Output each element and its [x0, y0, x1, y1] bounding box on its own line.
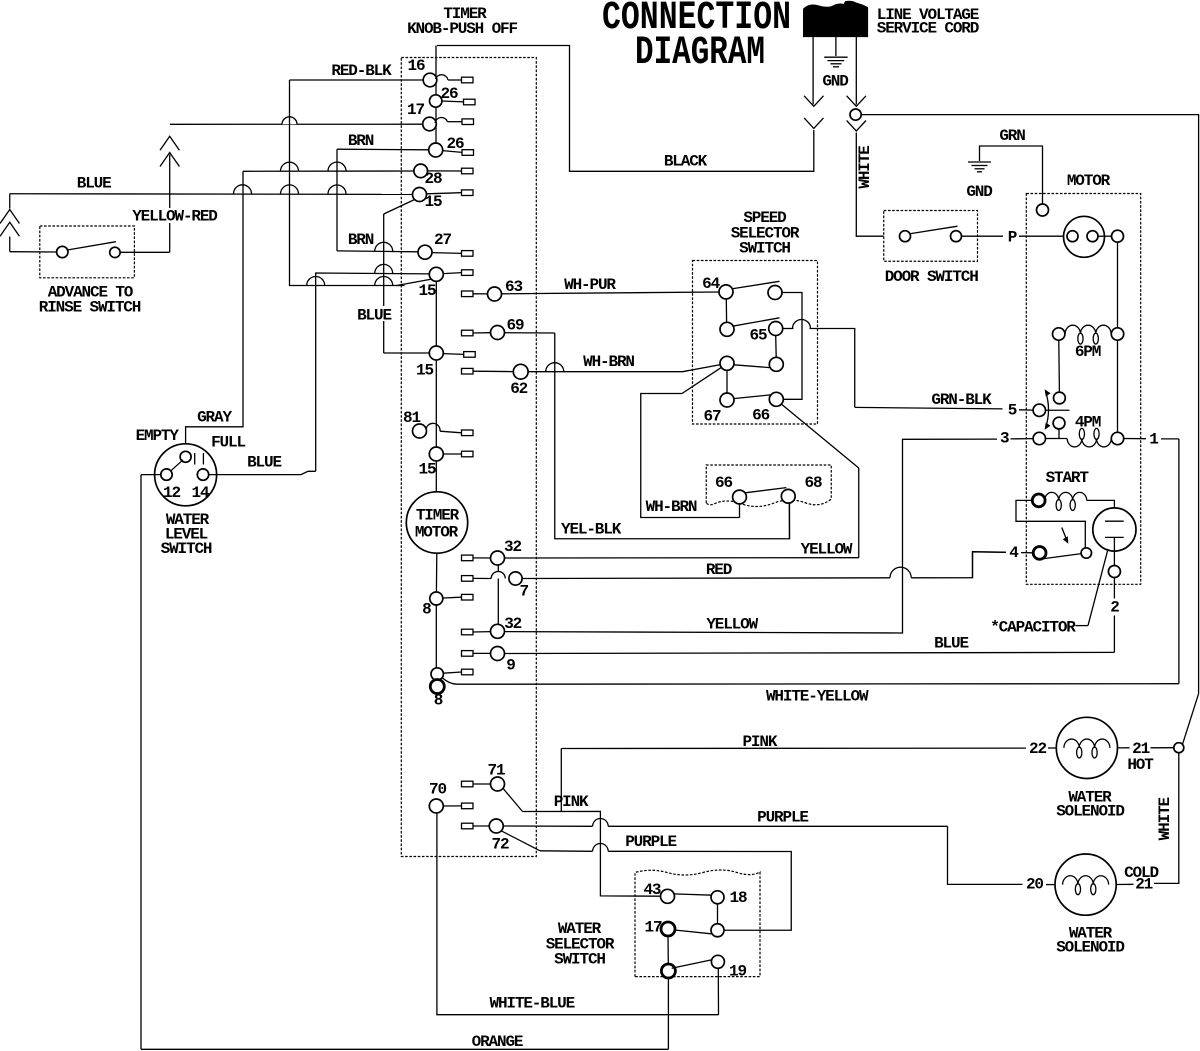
svg-text:GRN-BLK: GRN-BLK: [931, 391, 992, 409]
contact 70: [429, 799, 443, 813]
svg-text:66: 66: [752, 407, 769, 425]
svg-text:9: 9: [506, 657, 515, 675]
svg-text:YELLOW-RED: YELLOW-RED: [132, 208, 217, 226]
svg-text:SWITCH: SWITCH: [554, 951, 605, 969]
svg-text:MOTOR: MOTOR: [415, 524, 459, 542]
wire wh-brn2 from mid-left: [641, 367, 740, 517]
contact 65b: [769, 322, 783, 336]
contact 19: [711, 955, 724, 968]
contact 9: [491, 647, 505, 661]
contact speed switch lower: [1053, 417, 1065, 429]
connector chevron white: [847, 121, 866, 132]
wire red-blk to contact 16: [290, 79, 424, 81]
svg-text:43: 43: [643, 881, 660, 899]
svg-text:SWITCH: SWITCH: [739, 239, 790, 257]
motor pin circle: [1112, 230, 1124, 242]
hot solenoid circle: [1056, 717, 1117, 778]
svg-text:RED: RED: [706, 561, 732, 579]
wire orange vertical: [667, 978, 669, 1049]
wire 21 to junction: [1151, 747, 1174, 749]
wire 66a diagonal: [781, 404, 858, 468]
svg-text:28: 28: [425, 170, 442, 188]
water selector box: [635, 870, 760, 977]
motor rotor circle: [1064, 216, 1105, 257]
svg-text:WHITE: WHITE: [1156, 798, 1174, 841]
svg-text:YELLOW: YELLOW: [801, 541, 853, 559]
svg-text:8: 8: [422, 601, 431, 619]
svg-text:KNOB-PUSH OFF: KNOB-PUSH OFF: [407, 20, 517, 38]
wire 22 to hot coil: [1048, 747, 1056, 749]
wire start loop: [1016, 500, 1085, 548]
wire 27 to terminal: [432, 252, 462, 255]
contact 6PM left: [1053, 328, 1065, 340]
contact 19c: [661, 964, 675, 978]
wire left long vertical: [140, 475, 142, 1050]
blade rinse: [67, 242, 116, 250]
svg-text:RINSE SWITCH: RINSE SWITCH: [39, 299, 141, 317]
svg-text:START: START: [1046, 469, 1090, 487]
svg-text:68: 68: [805, 474, 822, 492]
svg-text:17: 17: [407, 101, 424, 119]
wire purple to 20: [948, 826, 1023, 884]
svg-text:EMPTY: EMPTY: [136, 427, 180, 445]
arrowhead black lead: [804, 96, 823, 107]
capacitor circle: [1093, 508, 1136, 551]
label YELLOW-RED: [131, 208, 219, 223]
contact rinse right: [110, 247, 120, 257]
wire 8a to terminal: [443, 596, 462, 599]
terminal 15c: [464, 352, 476, 358]
wire yellow 32a run: [505, 557, 859, 559]
blade 67-66: [734, 395, 771, 399]
terminal 17: [462, 119, 474, 125]
arrowhead white lead: [847, 96, 866, 107]
wire rinse to yellow-red: [120, 251, 170, 253]
svg-text:5: 5: [1008, 402, 1017, 420]
wire white diagonal to hot junction: [1183, 694, 1199, 745]
terminal 71: [462, 781, 474, 787]
label YELLOW (lower): [703, 616, 761, 629]
wire 5 fixed contact: [1046, 409, 1070, 411]
wire grn-blk: [855, 407, 1003, 409]
svg-text:P: P: [1008, 228, 1017, 246]
svg-text:27: 27: [434, 231, 451, 249]
contact mid-right: [769, 357, 783, 371]
contact 16: [423, 73, 437, 87]
wire terminal to 72: [473, 825, 489, 827]
terminal 9: [462, 651, 474, 657]
wire terminal to 32b: [473, 631, 491, 633]
svg-text:PURPLE: PURPLE: [757, 809, 808, 827]
contact 67: [720, 393, 734, 407]
svg-text:*CAPACITOR: *CAPACITOR: [990, 619, 1076, 637]
wire pink to solenoid: [561, 747, 1026, 749]
wire 15b to terminal: [443, 273, 461, 274]
aux switch 66/68 box: [706, 465, 831, 507]
wire blue down to switch: [9, 237, 11, 252]
connector chevron black: [804, 118, 823, 128]
wire wh-brn 62 run: [528, 371, 682, 373]
wire white top run to right edge: [861, 115, 1198, 694]
contact 27: [418, 245, 432, 259]
svg-text:BLUE: BLUE: [77, 175, 111, 193]
svg-text:WH-BRN: WH-BRN: [583, 353, 634, 371]
label 11 ticks: [194, 453, 196, 465]
wire 1 stub left: [1124, 438, 1146, 440]
strap 17w-blc: [667, 936, 669, 964]
wire pink tee up: [560, 749, 562, 812]
wire white-yellow run: [442, 678, 457, 685]
terminal 62: [462, 368, 474, 374]
wire 15c feed: [384, 352, 430, 354]
motor ground terminal: [1037, 204, 1049, 216]
svg-text:WH-PUR: WH-PUR: [564, 276, 616, 294]
contact 2: [1108, 566, 1120, 578]
wire 2 down: [1113, 578, 1115, 599]
motor rotor contact left: [1067, 231, 1078, 242]
wire blue vertical to 15b: [316, 273, 430, 471]
contact 5: [1033, 404, 1045, 416]
terminal 16: [462, 77, 474, 83]
svg-text:66: 66: [715, 474, 732, 492]
svg-text:WHITE-YELLOW: WHITE-YELLOW: [766, 688, 869, 706]
wire wh-brn diagonal to selector: [683, 365, 721, 372]
wire capacitor lower stem: [1113, 537, 1115, 565]
svg-text:ORANGE: ORANGE: [472, 1033, 523, 1051]
terminal 15b: [462, 270, 474, 276]
connector chevrons yellow-red: [160, 136, 179, 150]
contact 15b: [429, 267, 443, 281]
wire red run: [522, 577, 890, 580]
wire timer motor to 8a: [435, 553, 437, 592]
wire white-blue from 70: [437, 813, 719, 1015]
wire hop contact 16 to terminal: [436, 75, 449, 80]
svg-text:GRAY: GRAY: [197, 409, 232, 427]
contact 18: [711, 891, 724, 904]
wire 15a to terminal: [427, 193, 462, 194]
wire 5 stub: [1019, 409, 1033, 411]
wire 1 vertical: [1178, 439, 1180, 684]
wire blue left end: [9, 194, 11, 209]
contact 8a: [430, 592, 443, 605]
contact speed switch upper: [1054, 392, 1066, 404]
blade 65: [733, 318, 780, 326]
wire hop contact 81 to terminal: [426, 423, 440, 431]
svg-text:SOLENOID: SOLENOID: [1056, 939, 1124, 957]
svg-text:20: 20: [1026, 876, 1043, 894]
svg-text:69: 69: [507, 317, 524, 335]
svg-text:BLUE: BLUE: [357, 307, 391, 325]
contact 72: [489, 819, 503, 833]
capacitor plate bottom: [1105, 536, 1124, 538]
blade 64: [732, 281, 780, 289]
coil START: [1045, 492, 1087, 500]
contact 81: [413, 424, 427, 438]
blade mid: [734, 365, 770, 368]
svg-text:BLUE: BLUE: [247, 454, 281, 472]
wire terminal to 7: [473, 577, 491, 579]
svg-text:62: 62: [510, 380, 527, 398]
wire hot coil to 21: [1118, 747, 1130, 749]
ground lead from plug: [835, 37, 837, 56]
wire gray run: [186, 171, 243, 451]
strap lower to 3-line: [1058, 429, 1060, 438]
contact 8b: [431, 668, 443, 680]
svg-text:67: 67: [704, 408, 721, 426]
wire 21 cold stub: [1116, 883, 1133, 885]
wire orange run: [141, 1048, 668, 1050]
wire 8b to terminal: [443, 672, 461, 673]
svg-text:14: 14: [192, 484, 210, 502]
door switch box: [884, 211, 978, 262]
terminal 27: [462, 251, 474, 257]
wire 68 down: [788, 503, 790, 539]
contact 7: [509, 572, 522, 585]
wire timer common bus (vertical): [435, 46, 437, 144]
wire terminal to 32a: [473, 557, 491, 559]
strap 6PM to switch: [1058, 340, 1061, 392]
wire 26a to terminal: [442, 100, 464, 103]
wire to advance switch: [10, 251, 57, 253]
wire water level right lead (blue): [209, 471, 316, 474]
svg-text:GND: GND: [966, 183, 992, 201]
svg-text:PINK: PINK: [742, 733, 777, 751]
wire 26b to terminal: [443, 151, 462, 153]
svg-text:FULL: FULL: [211, 434, 245, 452]
svg-text:DIAGRAM: DIAGRAM: [635, 31, 765, 76]
svg-text:BRN: BRN: [348, 231, 374, 249]
wire purple lower run: [540, 850, 593, 853]
svg-text:WHITE-BLUE: WHITE-BLUE: [490, 995, 575, 1013]
strap 6PM right to 4PM right: [1117, 340, 1119, 432]
contact 3: [1033, 432, 1045, 444]
wire 71 diagonal: [503, 789, 522, 812]
wire 15 bus b-c: [435, 281, 437, 346]
node 8 bold ring: [430, 680, 444, 694]
svg-text:65: 65: [750, 327, 767, 345]
terminal 14 (water level right): [197, 469, 208, 480]
svg-text:BLACK: BLACK: [664, 153, 708, 171]
wire cold coil to 20: [1046, 884, 1055, 886]
svg-text:12: 12: [163, 484, 180, 502]
terminal 11 (water level top): [180, 451, 191, 462]
wire blue run (15a): [10, 193, 413, 196]
terminal 12 (water level left): [161, 469, 172, 480]
svg-text:1: 1: [1149, 431, 1158, 449]
svg-text:PINK: PINK: [554, 793, 589, 811]
wire terminal to 9: [473, 652, 491, 654]
svg-text:2: 2: [1110, 599, 1119, 617]
svg-text:15: 15: [416, 362, 433, 380]
strap 65b-mid: [775, 336, 778, 358]
wire yel-blk 69 to 68: [555, 333, 790, 539]
svg-text:HOT: HOT: [1127, 756, 1154, 774]
contact 68: [781, 489, 795, 503]
svg-text:YELLOW: YELLOW: [706, 616, 758, 634]
svg-text:DOOR SWITCH: DOOR SWITCH: [885, 268, 979, 286]
capacitor plate top: [1105, 520, 1124, 522]
contact 4: [1033, 547, 1046, 560]
coil cold solenoid: [1063, 876, 1109, 885]
wire yellow-red vertical: [169, 155, 171, 253]
node hot junction: [1174, 743, 1184, 753]
contact 66a: [769, 392, 783, 406]
wire 70 to terminal: [443, 805, 461, 807]
svg-text:COLD: COLD: [1124, 864, 1158, 882]
wire red-blk branch to 15b: [290, 80, 405, 286]
terminal 69: [462, 330, 474, 336]
wire 72 diagonal: [501, 831, 540, 851]
coil 4PM: [1067, 439, 1111, 447]
terminal 70: [462, 803, 474, 809]
wire 4 stub: [1021, 552, 1033, 554]
wire P to motor: [1019, 235, 1067, 237]
terminal 28: [462, 168, 474, 174]
svg-text:6PM: 6PM: [1075, 343, 1101, 361]
contact start left: [1032, 494, 1045, 507]
wire 3 stub: [1011, 438, 1034, 440]
svg-text:GND: GND: [822, 73, 848, 91]
contact 71: [491, 777, 505, 791]
svg-text:WH-BRN: WH-BRN: [646, 498, 697, 516]
wire gray run (28): [243, 170, 414, 172]
wire grn: [980, 146, 1043, 204]
svg-text:32: 32: [504, 615, 521, 633]
motor rotor contact right: [1087, 231, 1098, 242]
wire 66a vertical (yellow): [858, 468, 860, 558]
centrifugal arc: [1046, 391, 1049, 428]
svg-text:71: 71: [488, 762, 505, 780]
blade 4-start: [1037, 554, 1082, 560]
wire 15a diagonal to bus: [384, 200, 415, 214]
svg-text:22: 22: [1029, 740, 1046, 758]
contact 17w: [661, 922, 675, 936]
contact 66b: [733, 490, 747, 504]
svg-text:WHITE: WHITE: [856, 146, 874, 189]
svg-text:GRN: GRN: [999, 127, 1025, 145]
terminal 8a: [462, 594, 474, 600]
svg-text:SWITCH: SWITCH: [161, 540, 212, 558]
wire 66b down: [739, 504, 741, 518]
contact 64: [719, 285, 733, 299]
label BLUE (timer left): [356, 306, 393, 321]
wire blue run: [505, 652, 1115, 653]
svg-text:64: 64: [702, 275, 720, 293]
terminal 81: [462, 430, 474, 436]
svg-text:81: 81: [403, 409, 420, 427]
terminal 63: [462, 291, 474, 297]
wire purple upper run: [503, 825, 592, 827]
svg-text:BRN: BRN: [348, 132, 374, 150]
wire 3 to coil: [1046, 438, 1068, 440]
wire terminal to 63: [473, 293, 488, 295]
svg-text:72: 72: [492, 836, 509, 854]
contact 15c: [429, 346, 443, 360]
contact door right: [951, 231, 962, 242]
wire 15d to terminal: [443, 453, 461, 455]
wire 15c to terminal: [443, 353, 463, 356]
wire yellow 32b run: [505, 439, 998, 633]
wire plug left lead (black): [812, 37, 814, 105]
contact 15d: [429, 447, 443, 461]
advance to rinse box: [40, 226, 135, 278]
coil 6PM: [1065, 325, 1111, 334]
wire diagonal to contact 15b: [396, 279, 433, 286]
wire 15 bus c-d: [435, 360, 437, 447]
wire 15 bus d-motor: [435, 461, 437, 492]
contact 17: [423, 117, 437, 131]
wire 17 from disconnect: [170, 123, 423, 125]
blade water level: [170, 460, 183, 472]
blade 19: [672, 959, 714, 968]
svg-text:19: 19: [729, 963, 746, 981]
speed selector box: [693, 261, 818, 425]
svg-text:TIMER: TIMER: [416, 507, 460, 525]
terminal 15a: [462, 190, 474, 196]
wire water level left lead: [141, 474, 161, 476]
terminal 8b: [462, 669, 474, 675]
wire start to capacitor: [1087, 500, 1115, 521]
contact 69: [491, 326, 505, 340]
svg-text:18: 18: [730, 889, 747, 907]
wire terminal to 62: [473, 370, 513, 372]
terminal 26a: [464, 99, 476, 105]
start arrow: [1062, 528, 1068, 542]
svg-text:7: 7: [519, 583, 528, 601]
terminal 26b: [462, 150, 474, 156]
contact 15a: [413, 188, 427, 202]
svg-text:RED-BLK: RED-BLK: [331, 62, 392, 80]
wire 65 output: [783, 328, 794, 330]
blade 17w-18b: [675, 930, 712, 934]
timer motor circle: [406, 492, 467, 553]
ground symbol at plug: [824, 56, 847, 58]
svg-text:15: 15: [419, 461, 436, 479]
wire door to P: [962, 235, 1004, 237]
contact 62: [513, 364, 528, 379]
timer box: [401, 58, 536, 857]
node white junction circle: [850, 109, 861, 120]
wire 4 run: [973, 552, 1007, 578]
svg-text:SOLENOID: SOLENOID: [1056, 803, 1124, 821]
wire 69 to yel-blk corner: [505, 332, 555, 334]
terminal 15d: [462, 451, 474, 457]
strap 18-18b: [717, 904, 719, 924]
svg-text:8: 8: [434, 692, 443, 710]
contact 26b: [429, 143, 443, 157]
wire 19 down to white-blue: [717, 968, 719, 1014]
terminal 7: [462, 576, 474, 582]
contact 43: [661, 889, 675, 903]
wire white to door switch: [856, 133, 883, 237]
motor box: [1026, 194, 1140, 585]
svg-text:MOTOR: MOTOR: [1067, 172, 1111, 190]
wire 2 to blue: [1113, 616, 1115, 653]
line voltage service cord plug: [804, 1, 868, 36]
svg-text:32: 32: [504, 538, 521, 556]
wire terminal to 71: [473, 783, 491, 785]
strap mid-67: [726, 370, 728, 393]
terminal 32b: [462, 629, 474, 635]
svg-text:26: 26: [441, 85, 458, 103]
wire hop contact 17 to terminal: [435, 118, 448, 123]
strap 32a-32b: [497, 565, 499, 624]
svg-text:15: 15: [425, 193, 442, 211]
contact 63: [488, 287, 502, 301]
svg-text:PURPLE: PURPLE: [625, 833, 676, 851]
strap 64-65: [725, 299, 727, 322]
contact mid-left: [720, 356, 734, 370]
